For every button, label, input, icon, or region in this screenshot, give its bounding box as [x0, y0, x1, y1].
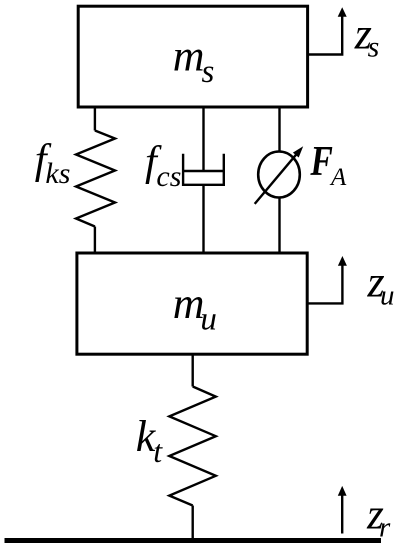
arrowhead z_u — [338, 256, 347, 266]
wire spring f_ks bottom rod — [94, 227, 96, 254]
svg-text:zs: zs — [354, 10, 380, 64]
svg-text:mu: mu — [173, 279, 217, 337]
actuator F_A top rod — [278, 107, 280, 152]
damper cup — [183, 154, 224, 185]
svg-text:ms: ms — [173, 31, 215, 90]
svg-text:zu: zu — [367, 258, 395, 312]
wire spring f_ks top rod — [94, 107, 96, 131]
actuator F_A circle — [258, 152, 300, 198]
svg-text:zr: zr — [366, 492, 391, 544]
svg-text:A: A — [329, 164, 347, 191]
damper f_cs top rod — [202, 107, 204, 171]
spring k_t — [169, 387, 216, 506]
arrowhead z_s — [338, 7, 347, 16]
spring f_ks — [76, 131, 115, 227]
arrow z_r — [341, 495, 343, 534]
wire z_s connector — [308, 16, 343, 55]
mass m_u box — [77, 253, 307, 354]
damper piston plate — [183, 170, 224, 172]
wire z_u connector — [307, 265, 342, 304]
mass m_s box — [78, 6, 307, 107]
tire spring k_t top rod — [191, 354, 193, 386]
svg-text:fks: fks — [35, 136, 71, 190]
ground line — [5, 538, 382, 543]
svg-text:F: F — [310, 139, 333, 185]
actuator F_A diagonal arrow — [255, 154, 297, 204]
tire spring k_t bottom rod — [191, 506, 193, 540]
svg-text:fcs: fcs — [145, 138, 181, 193]
actuator F_A bottom rod — [278, 197, 280, 253]
svg-text:kt: kt — [136, 412, 164, 469]
damper bottom rod — [202, 185, 204, 253]
